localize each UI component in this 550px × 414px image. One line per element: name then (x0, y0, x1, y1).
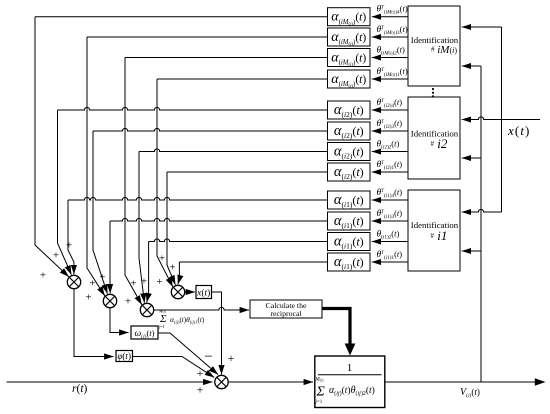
wire x(t) input horizontal with hop over feedback line (465, 117, 540, 120)
dots between iM and i2 blocks (432, 88, 434, 98)
svg-text:θ(i1)2(t): θ(i1)2(t) (377, 229, 400, 241)
x(t) multiplier box (196, 286, 212, 299)
wire into junction A input 3 (68, 200, 74, 274)
wire theta i2 4 arrow into alpha block (372, 109, 408, 111)
svg-text:+: + (228, 351, 235, 365)
svg-text:θT (i1)4(t): θT (i1)4(t) (377, 187, 403, 199)
alpha block i1 row 1 (328, 253, 371, 271)
svg-text:reciprocal: reciprocal (270, 309, 302, 318)
wire junction B output to omega box (110, 308, 129, 333)
svg-text:θ(i2)2(t): θ(i2)2(t) (377, 139, 400, 151)
wire theta i1 4 arrow into alpha block (372, 199, 408, 201)
alpha block i1 row 4 (328, 191, 371, 209)
wire into junction C input 2 (139, 152, 144, 303)
wire alpha i1 row4 output horizontal (179, 261, 327, 263)
wire r(t) input line (7, 381, 213, 383)
wire alpha i1 row3 output horizontal (149, 239, 328, 242)
wire theta i1 3 arrow into alpha block (372, 220, 408, 222)
omega(i)(t) box (131, 326, 158, 339)
wire theta i1 1 arrow into alpha block (372, 261, 408, 263)
svg-text:θ(iM(i))2(t): θ(iM(i))2(t) (377, 45, 406, 57)
wire theta i2 1 arrow into alpha block (372, 171, 408, 173)
svg-text:+: + (125, 296, 131, 308)
wire feedback arrow into Identification i2 (462, 157, 481, 159)
svg-text:x(t): x(t) (507, 123, 530, 138)
alpha block i2 row 4 (328, 101, 371, 119)
alpha block i2 row 3 (328, 122, 371, 140)
Identification block # iM(i) (408, 6, 460, 86)
wire into junction B input 2 (93, 131, 107, 294)
svg-text:θT (iM(i))3(t): θT (iM(i))3(t) (377, 24, 408, 36)
divider block 1/sum (315, 356, 385, 408)
svg-text:θT (i2)4(t): θT (i2)4(t) (377, 97, 403, 109)
wire junction A output to phi box (74, 289, 114, 357)
svg-text:+: + (99, 272, 105, 284)
wire theta i1 2 arrow into alpha block (372, 241, 408, 243)
alpha block iM row 4 (328, 8, 371, 26)
svg-text:r(t): r(t) (72, 383, 88, 395)
wire x(t) box output down to junction E (212, 292, 222, 374)
wire into junction B input 3 (109, 221, 111, 293)
wire junction E output to divider block (228, 381, 313, 383)
svg-text:+: + (141, 276, 147, 288)
svg-text:# i2: # i2 (431, 136, 448, 151)
summing junction C (circle with X) (140, 303, 153, 316)
svg-text:+: + (197, 383, 204, 397)
wire feedback arrow into Identification iM (462, 65, 481, 67)
wire feedback vertical from output to identification blocks (480, 66, 482, 382)
svg-text:θT (i1)1(t): θT (i1)1(t) (377, 249, 403, 261)
alpha block iM row 2 (328, 49, 371, 67)
svg-text:M(i): M(i) (315, 378, 325, 383)
wire into junction C input 3 (147, 242, 149, 303)
phi(t) box (116, 351, 133, 362)
wire thick connector reciprocal to divider block (322, 309, 350, 345)
svg-text:j=1: j=1 (315, 400, 323, 405)
svg-text:θT (iM(i))4(t): θT (iM(i))4(t) (377, 4, 408, 16)
svg-text:−: − (204, 349, 212, 365)
wire alpha i2 row4 output horizontal (167, 171, 328, 173)
wire omega box output diagonal to junction E (158, 333, 218, 375)
svg-text:M(i): M(i) (158, 309, 167, 314)
wire alpha iM row1 output horizontal (35, 16, 328, 18)
Identification block # i2 (408, 97, 460, 179)
wire junction D output to x(t) box (185, 291, 195, 293)
wire theta i2 2 arrow into alpha block (372, 151, 408, 153)
svg-text:+: + (40, 270, 46, 282)
alpha block i1 row 3 (328, 212, 371, 230)
wire phi box output to junction E (133, 357, 215, 378)
wire into junction A input 2 (58, 110, 72, 275)
summing junction A (circle with X) (67, 275, 80, 288)
wire x(t) arrow into Identification i1 (hops feedback line) (462, 209, 502, 212)
Calculate the reciprocal box (250, 300, 322, 318)
svg-text:Σ: Σ (316, 385, 326, 400)
wire into junction B input 1 (87, 37, 105, 296)
alpha block i2 row 1 (328, 163, 371, 181)
wire alpha iM row3 output horizontal (125, 57, 328, 59)
svg-text:# i1: # i1 (431, 228, 448, 243)
summing junction E (circle with X) (215, 375, 228, 388)
arrow x(t) into Identification i2 (462, 119, 470, 121)
svg-text:α(ij)(t)θ(ij)1(t): α(ij)(t)θ(ij)1(t) (170, 315, 205, 325)
wire junction C output to reciprocal box (154, 307, 249, 310)
svg-text:+: + (197, 366, 204, 380)
wire alpha i2 row1 output horizontal (58, 107, 328, 110)
wire x(t) distribution vertical (501, 27, 503, 212)
svg-text:j=1: j=1 (158, 324, 165, 329)
svg-text:+: + (130, 278, 136, 290)
wire feedback arrow into Identification i1 (462, 250, 481, 252)
svg-text:+: + (156, 276, 162, 288)
svg-text:1: 1 (347, 362, 353, 374)
wire into junction D input 2 (167, 172, 175, 285)
alpha block i2 row 2 (328, 143, 371, 161)
summing junction B (circle with X) (103, 294, 116, 307)
wire into junction C input 1 (125, 58, 142, 305)
svg-text:+: + (159, 253, 165, 265)
svg-text:+: + (89, 278, 95, 290)
svg-text:θT (i2)3(t): θT (i2)3(t) (377, 118, 403, 130)
wire divider block output V(i)(t) (385, 381, 536, 383)
wire alpha i1 row2 output horizontal (110, 218, 328, 221)
alpha block iM row 3 (328, 28, 371, 46)
svg-text:+: + (66, 240, 72, 252)
svg-text:+: + (85, 292, 91, 304)
wire theta iM 4 arrow into alpha block (372, 16, 408, 18)
wire theta i2 3 arrow into alpha block (372, 130, 408, 132)
wire into junction A input 1 (35, 17, 69, 277)
wire alpha iM row2 output horizontal (87, 36, 328, 38)
wire alpha i2 row3 output horizontal (139, 149, 328, 152)
wire alpha i1 row1 output horizontal (68, 197, 328, 200)
svg-text:φ(t): φ(t) (117, 351, 131, 361)
Identification block # i1 (408, 190, 460, 271)
svg-text:x(t): x(t) (196, 288, 210, 299)
wire alpha i2 row2 output horizontal (93, 128, 328, 131)
alpha block iM row 1 (328, 70, 371, 88)
wire into junction D input 1 (157, 79, 173, 287)
svg-text:θT (i1)3(t): θT (i1)3(t) (377, 208, 403, 220)
wire theta iM 1 arrow into alpha block (372, 78, 408, 80)
summing junction D (circle with X) (171, 285, 184, 298)
svg-text:θT (i2)1(t): θT (i2)1(t) (377, 159, 403, 171)
wire theta iM 2 arrow into alpha block (372, 57, 408, 59)
svg-text:+: + (53, 250, 59, 262)
svg-text:+: + (169, 262, 175, 274)
wire x(t) arrow into Identification iM (462, 26, 502, 28)
svg-text:# iM(i): # iM(i) (431, 44, 457, 56)
alpha block i1 row 2 (328, 233, 371, 251)
wire theta iM 3 arrow into alpha block (372, 36, 408, 38)
svg-text:V(i)(t): V(i)(t) (460, 387, 480, 399)
wire alpha iM row4 output horizontal (157, 78, 328, 80)
svg-text:θT (iM(i))1(t): θT (iM(i))1(t) (377, 66, 408, 78)
wire into junction D input 3 (178, 262, 180, 284)
